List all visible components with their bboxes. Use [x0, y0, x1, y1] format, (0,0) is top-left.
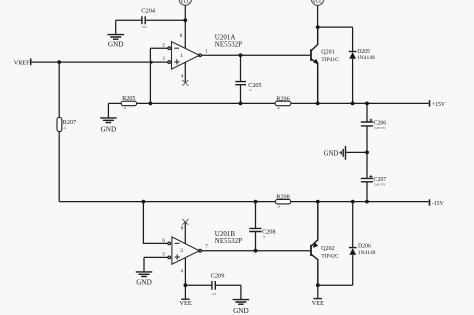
svg-text:1: 1	[180, 53, 183, 59]
transistor Q202	[311, 202, 339, 286]
node junction C205 bottom	[239, 102, 243, 106]
svg-text:1MF/50V: 1MF/50V	[374, 126, 387, 130]
ground GND (under C209)	[233, 300, 250, 315]
node junction Q202 emitter / rail	[316, 200, 320, 204]
svg-text:C204: C204	[141, 8, 156, 15]
svg-text:D206: D206	[358, 244, 371, 250]
svg-text:VEE: VEE	[179, 300, 192, 307]
svg-text:VREF: VREF	[14, 59, 30, 66]
capacitor C209	[211, 273, 225, 290]
capacitor C205	[235, 55, 261, 103]
wire VCC to collector node	[317, 5, 319, 27]
wire pin6 branch	[143, 202, 167, 244]
diode D205	[349, 49, 375, 103]
node junction Q201 emitter / rail	[316, 102, 320, 106]
transistor Q201	[311, 27, 339, 103]
node crossing blob pin2/VREF	[150, 61, 153, 64]
svg-text:-15V: -15V	[432, 201, 445, 207]
capacitor C206	[361, 103, 386, 152]
svg-text:2k: 2k	[63, 126, 66, 130]
svg-text:2k: 2k	[123, 106, 127, 110]
node junction VREF/R207	[57, 60, 61, 64]
ground GND (under C204)	[107, 35, 124, 49]
node junction C206/C207 mid	[365, 151, 369, 155]
op-amp U201A	[168, 34, 242, 70]
wire mid node to GND	[346, 151, 367, 153]
node junction C208 bottom	[254, 249, 258, 253]
svg-text:R205: R205	[122, 95, 135, 102]
wire pin 4 to VEE	[184, 258, 186, 299]
svg-text:1N4148: 1N4148	[357, 55, 375, 61]
resistor R206	[275, 96, 291, 106]
power VEE symbol (under U201B)	[179, 299, 192, 307]
resistor R208	[275, 193, 290, 204]
ground GND (under pin 5)	[136, 272, 153, 287]
resistor R207	[57, 117, 76, 131]
wire VREF to pin 3	[31, 61, 167, 63]
no-ERC X (U201A pin 4)	[182, 80, 188, 86]
svg-text:GND: GND	[108, 41, 124, 49]
wire op-amp A output to Q201 base	[201, 54, 310, 56]
svg-text:NE5532P: NE5532P	[215, 41, 242, 49]
svg-text:GND: GND	[233, 307, 249, 315]
svg-text:1n: 1n	[249, 88, 253, 92]
svg-text:+15V: +15V	[432, 102, 446, 108]
svg-text:R208: R208	[276, 193, 289, 200]
capacitor C207	[361, 152, 386, 201]
node junction C204/VCC	[183, 18, 187, 22]
power VCC symbol (right, above Q201)	[311, 0, 324, 5]
svg-text:10n: 10n	[142, 25, 147, 29]
svg-text:Q202: Q202	[321, 246, 334, 252]
resistor R205	[121, 95, 136, 106]
wire to C209	[185, 285, 241, 299]
capacitor C208	[249, 202, 275, 251]
svg-text:VCC: VCC	[312, 0, 323, 5]
node junction collector/VCC/D205	[316, 25, 320, 29]
svg-text:2k: 2k	[277, 204, 281, 208]
node junction C207 / -15V rail	[365, 200, 369, 204]
wire op-amp B output to Q202 base	[201, 250, 310, 252]
wire pin 2 feedback drop	[150, 48, 167, 103]
svg-text:TIP41C: TIP41C	[321, 57, 339, 63]
power VEE symbol (under Q202)	[312, 299, 325, 307]
ground GND (rotated, mid rail)	[324, 146, 346, 160]
svg-text:R206: R206	[276, 96, 289, 103]
svg-text:Q201: Q201	[321, 49, 334, 55]
wire R207 bottom to lower feedback line	[58, 132, 60, 202]
wire pin 4 no-connect	[184, 62, 186, 83]
capacitor C204	[141, 8, 156, 25]
node junction C205 top	[239, 53, 243, 57]
svg-text:2k: 2k	[277, 106, 281, 110]
node junction pin6 branch	[142, 200, 146, 204]
wire collector to VEE	[317, 285, 319, 298]
svg-text:GND: GND	[324, 150, 339, 157]
node junction C208 top	[254, 200, 258, 204]
node junction D205 / rail	[351, 102, 355, 106]
node junction collector/VEE	[316, 283, 320, 287]
wire +15V feedback rail	[108, 103, 428, 117]
svg-text:VCC: VCC	[180, 0, 191, 5]
node junction C206 / rail	[365, 102, 369, 106]
svg-text:10n: 10n	[212, 292, 217, 296]
svg-text:1n: 1n	[262, 235, 266, 239]
node junction pin2 drop / rail	[149, 102, 153, 106]
wire VCC to op-amp pin 8	[184, 5, 186, 48]
diode D206	[349, 202, 376, 286]
port -15V	[430, 199, 445, 207]
svg-text:1N4148: 1N4148	[358, 250, 376, 256]
node junction D206 / rail	[351, 200, 355, 204]
op-amp U201B	[168, 230, 242, 264]
svg-text:VEE: VEE	[312, 300, 325, 307]
svg-text:GND: GND	[136, 279, 152, 287]
wire pin 8 stub	[184, 222, 186, 244]
power VCC symbol (left, above U201A)	[179, 0, 192, 5]
svg-text:GND: GND	[101, 125, 117, 133]
wire collector node to D205	[318, 27, 353, 51]
wire C204 left to GND corner	[116, 20, 186, 34]
wire lower feedback / -15V rail	[59, 201, 428, 203]
no-ERC X (U201B pin 8)	[182, 219, 188, 225]
wire Q202 collector to D206 bottom	[318, 284, 353, 286]
node junction pin4/C209/VEE	[184, 283, 188, 287]
wire pin 5 to GND	[144, 257, 168, 271]
port VREF	[14, 58, 31, 66]
svg-text:C209: C209	[211, 273, 225, 280]
wire R207 top	[58, 62, 60, 117]
svg-text:1MF/50V: 1MF/50V	[374, 182, 387, 186]
svg-text:TIP42C: TIP42C	[321, 253, 339, 259]
port +15V	[430, 100, 446, 108]
svg-text:2: 2	[180, 248, 183, 254]
svg-text:NE5532P: NE5532P	[215, 237, 242, 245]
ground GND (under R205)	[100, 118, 117, 133]
svg-text:D205: D205	[357, 49, 370, 55]
